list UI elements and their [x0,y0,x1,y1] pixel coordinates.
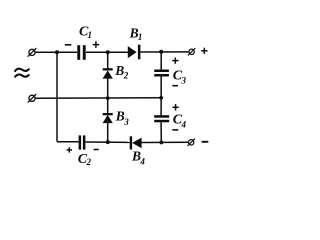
AC source symbol [15,69,30,78]
wire C4 column lower [160,122,162,142]
capacitor C1 plates [77,45,85,60]
node junction bottom-C4 [159,140,163,144]
wire B2 column upper [107,52,109,68]
capacitor C2 plates [79,135,86,149]
polarity minus C3 [172,85,178,87]
wire top rail right [140,51,189,53]
polarity plus output top-right [201,48,207,54]
diode B2 [103,68,113,78]
wire B2-B3 column middle [107,79,109,114]
wire C3 column upper [160,52,162,70]
wire C3-C4 column middle [160,76,162,115]
polarity plus C2 [67,147,72,152]
wire bottom rail middle [86,141,130,143]
polarity minus C1 [65,44,72,46]
wire bottom rail left [57,141,79,143]
terminal output bottom-right [188,139,195,146]
node junction top-C3 [159,50,163,54]
node junction mid-C3C4 [159,96,163,100]
polarity plus C1 [93,41,100,48]
wire middle rail [35,97,161,99]
node junction top-B2 [106,50,110,54]
node junction mid-B2B3 [106,96,110,100]
diode B4 [130,136,142,149]
node junction bottom-B3 [106,140,110,144]
wire top rail left [35,51,77,53]
wire top rail middle [86,51,128,53]
wire bottom rail right [142,141,189,143]
terminal input top-left [28,48,37,57]
polarity minus output bottom-right [202,141,209,143]
terminal output top-right [188,48,195,55]
capacitor C4 plates [154,115,169,122]
node junction top-left [55,50,59,54]
wire left column [56,52,58,141]
diode B3 [103,113,113,123]
polarity minus C4 [172,129,178,131]
terminal input mid-left [28,94,37,103]
polarity minus C2 [94,149,99,151]
polarity plus C3 [172,58,178,64]
polarity plus C4 [172,104,178,110]
wire B3 column lower [107,123,109,142]
capacitor C3 plates [154,70,169,77]
diode B1 [128,45,141,60]
